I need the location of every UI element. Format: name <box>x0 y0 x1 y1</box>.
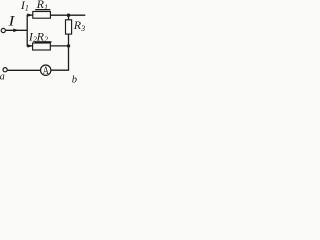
wire branch1 right to edge <box>50 14 85 16</box>
arrowhead current I1 <box>27 13 32 16</box>
node junction dot middle (R3 bottom / branch2) <box>67 44 70 47</box>
wire input horizontal <box>6 29 27 31</box>
arrowhead current I2 <box>27 44 32 47</box>
resistor R3 <box>66 20 72 34</box>
svg-text:a: a <box>0 71 5 82</box>
label underline of R2 <box>35 41 52 42</box>
resistor R2 <box>33 43 51 50</box>
wire R3 top stub <box>68 15 70 20</box>
ammeter A1 <box>41 65 51 75</box>
terminal (input, left middle) <box>1 28 5 32</box>
label underline of R1 <box>35 9 50 10</box>
svg-text:b: b <box>72 74 77 85</box>
wire branch1 left stub <box>27 14 33 16</box>
wire right vertical <box>68 34 70 70</box>
arrowhead current I <box>13 29 18 33</box>
wire bottom right horizontal <box>51 69 69 71</box>
wire bottom left horizontal <box>8 69 41 71</box>
terminal a <box>3 68 7 72</box>
node junction dot top (R3 top) <box>67 14 70 17</box>
node split junction (left vertical wire) <box>26 15 28 47</box>
resistor R1 <box>33 12 51 19</box>
wire branch2 right <box>50 45 68 47</box>
wire branch2 left stub <box>27 45 33 47</box>
svg-text:A: A <box>43 65 50 77</box>
